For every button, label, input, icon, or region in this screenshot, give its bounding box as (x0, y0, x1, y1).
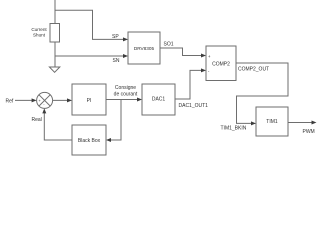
wire: DAC1_OUT1 to COMP2 minus input (175, 70, 203, 99)
wire: SO1 from DRV8305 to COMP2 plus input (160, 48, 203, 56)
wire: top supply drop into current shunt (54, 0, 56, 24)
svg-text:Black Box: Black Box (78, 138, 101, 144)
svg-text:SN: SN (113, 58, 120, 64)
svg-text:SO1: SO1 (164, 42, 174, 48)
wire: Black Box output (Real) to summing junction (44, 112, 72, 141)
arrow at PWM output end (312, 121, 317, 125)
block DAC1 (142, 84, 175, 115)
svg-text:SP: SP (112, 34, 119, 40)
block U1 DRV8305 gate driver (128, 32, 160, 64)
svg-text:Current: Current (31, 27, 47, 32)
svg-text:COMP2_OUT: COMP2_OUT (238, 67, 269, 73)
wire: branch from consigne wire down to Black Box input (109, 100, 121, 141)
comparator COMP2 (206, 46, 236, 81)
arrow into COMP2 + pin (201, 54, 206, 58)
svg-text:Consigne: Consigne (115, 85, 136, 91)
svg-text:de courant: de courant (114, 92, 138, 98)
svg-text:PI: PI (87, 98, 92, 104)
arrow into DAC1 input (137, 98, 142, 102)
ground (49, 67, 59, 72)
svg-text:COMP2: COMP2 (212, 62, 230, 68)
resistor R-shunt (Current Shunt) (31, 24, 59, 43)
svg-text:DAC1: DAC1 (152, 97, 166, 103)
arrow into summing junction from Ref (32, 98, 37, 102)
block PI controller (72, 84, 106, 115)
arrow into Black Box input (106, 138, 111, 142)
svg-text:DRV8305: DRV8305 (134, 46, 155, 51)
block TIM1 timer (256, 107, 288, 136)
wire: COMP2_OUT to TIM1_BKIN (236, 63, 288, 123)
wire: shunt bottom to ground (54, 42, 56, 67)
wire: PI output (Consigne de courant) to DAC1 (106, 99, 139, 101)
block Black Box (72, 125, 106, 155)
svg-text:PWM: PWM (303, 129, 315, 135)
arrowheads (32, 37, 317, 142)
arrow into COMP2 - pin (201, 68, 206, 72)
svg-text:Real: Real (32, 117, 42, 123)
wire: summing junction to PI (53, 99, 69, 101)
svg-text:Shunt: Shunt (33, 32, 46, 37)
arrow into TIM1 BKIN pin (251, 121, 256, 125)
arrow into DRV8305 SN pin (123, 54, 128, 58)
summing junction (circle with X) (37, 92, 53, 108)
svg-text:TIM1_BKIN: TIM1_BKIN (221, 126, 247, 132)
wire: PWM output from TIM1 (288, 122, 313, 124)
wire: SN sense from shunt bottom to DRV8305 (55, 55, 125, 57)
wire: Ref input to summing junction (15, 99, 34, 101)
wire: SP sense from shunt top to DRV8305 (55, 10, 125, 39)
arrow into PI input (67, 98, 72, 102)
svg-text:DAC1_OUT1: DAC1_OUT1 (179, 103, 209, 109)
svg-text:TIM1: TIM1 (266, 119, 278, 125)
svg-text:Ref: Ref (6, 99, 14, 105)
arrow into summing junction from Real (42, 108, 46, 113)
svg-text:+: + (208, 54, 211, 59)
arrow into DRV8305 SP pin (123, 37, 128, 41)
